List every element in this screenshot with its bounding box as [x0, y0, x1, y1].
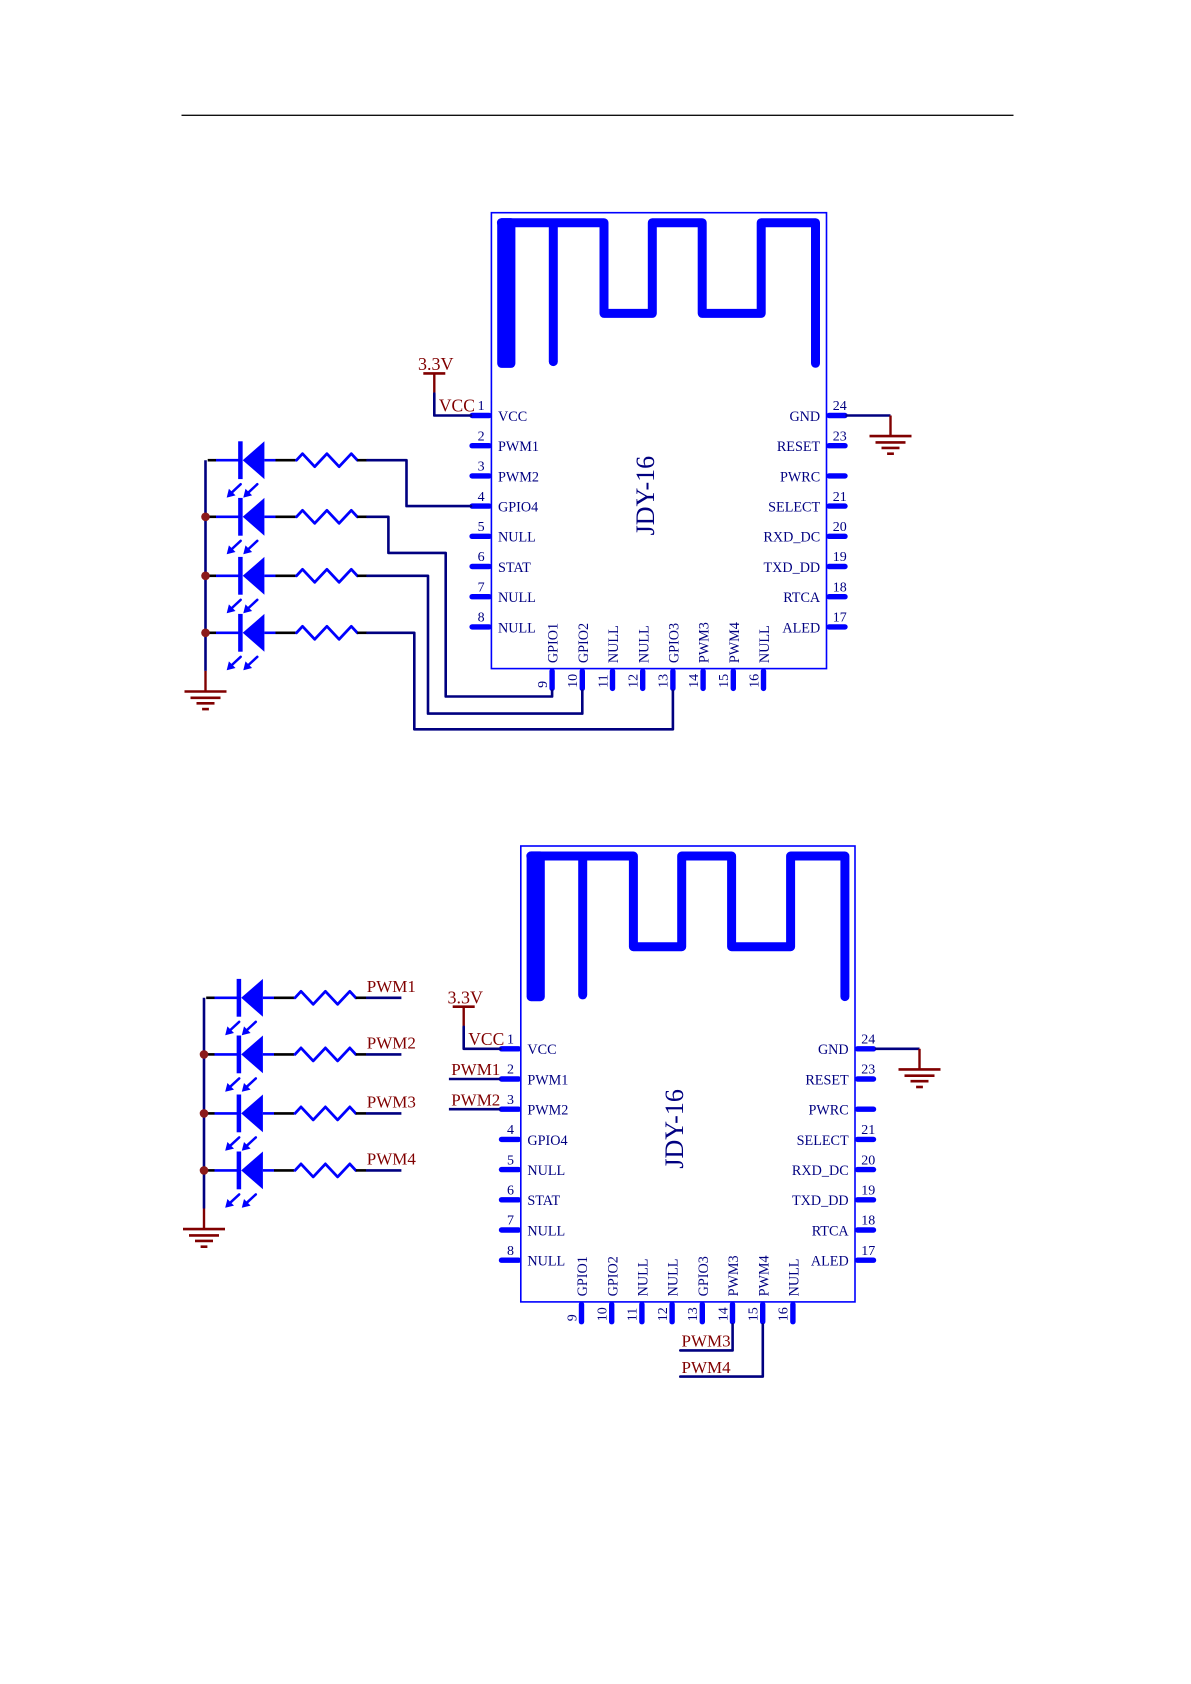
svg-text:TXD_DD: TXD_DD: [792, 1193, 849, 1209]
svg-text:1: 1: [507, 1033, 514, 1048]
U1 pin 10 (GPIO2): [566, 623, 592, 689]
U1 pin 2 (PWM1): [472, 429, 539, 455]
resistor R6: [295, 1048, 366, 1061]
svg-text:PWM4: PWM4: [367, 1149, 417, 1168]
U2 pin 5 (NULL): [502, 1153, 566, 1179]
resistor R4: [297, 626, 368, 639]
U2 pin 8 (NULL): [502, 1244, 566, 1270]
svg-text:15: 15: [747, 1307, 762, 1321]
svg-text:VCC: VCC: [439, 396, 475, 416]
power 3.3V (bottom): [447, 988, 483, 1028]
module U2 name JDY-16: [660, 1089, 689, 1168]
svg-text:NULL: NULL: [666, 1259, 682, 1297]
wire 3.3V to U2 pin 1: [464, 1027, 501, 1049]
junction dot: [201, 629, 210, 638]
U1 pin 12 (NULL): [627, 625, 653, 688]
svg-text:NULL: NULL: [606, 625, 622, 663]
svg-text:PWM3: PWM3: [697, 622, 713, 663]
wire U1 pin 24 to ground: [846, 414, 891, 417]
module U2 body: [521, 846, 855, 1302]
U2 pin 19 (TXD_DD): [792, 1184, 875, 1210]
wire net PWM2 to U2 pin 3: [449, 1108, 501, 1111]
wire R3 to U1 pin 10 (GPIO2): [368, 576, 583, 714]
resistor R7: [295, 1107, 366, 1120]
net label PWM4: [367, 1149, 417, 1168]
wire U2 pin 14 to net PWM3: [680, 1324, 732, 1350]
wire R2 to U1 pin 9 (GPIO1): [368, 517, 553, 697]
U1 pin 24 (GND): [789, 399, 846, 425]
svg-text:RESET: RESET: [805, 1072, 849, 1088]
U1 pin 6 (STAT): [472, 550, 531, 576]
U2 pin 9 (GPIO1): [565, 1256, 591, 1322]
resistor R8: [295, 1164, 366, 1177]
svg-text:20: 20: [833, 520, 847, 535]
junction dot: [200, 1109, 209, 1118]
U1 pin 7 (NULL): [472, 580, 536, 606]
svg-text:NULL: NULL: [757, 625, 773, 663]
svg-text:VCC: VCC: [468, 1029, 504, 1049]
LED D8: [206, 1152, 294, 1208]
svg-text:23: 23: [861, 1063, 875, 1078]
U1 pin 17 (ALED): [782, 611, 846, 637]
U1 pin 15 (PWM4): [717, 622, 743, 688]
svg-text:14: 14: [687, 674, 702, 688]
ground (LED rail, top): [185, 671, 227, 709]
svg-text:5: 5: [507, 1153, 514, 1168]
svg-text:19: 19: [861, 1184, 875, 1199]
svg-text:16: 16: [747, 674, 762, 688]
svg-text:GPIO3: GPIO3: [696, 1256, 712, 1296]
svg-text:RXD_DC: RXD_DC: [763, 530, 820, 546]
wire 3.3V to U1 pin 1: [434, 394, 471, 416]
svg-text:10: 10: [596, 1307, 611, 1321]
svg-text:9: 9: [565, 1314, 580, 1321]
net label PWM1 (pin2): [451, 1060, 500, 1079]
U1 pin 1 (VCC): [472, 399, 527, 425]
svg-text:23: 23: [833, 429, 847, 444]
svg-text:GND: GND: [818, 1042, 849, 1058]
resistor R5: [295, 991, 366, 1004]
svg-text:NULL: NULL: [498, 620, 536, 636]
svg-text:6: 6: [478, 550, 485, 565]
svg-text:24: 24: [861, 1033, 875, 1048]
module U2 antenna: [527, 851, 845, 1001]
svg-text:8: 8: [507, 1244, 514, 1259]
svg-text:NULL: NULL: [787, 1259, 803, 1297]
U1 pin 14 (PWM3): [687, 622, 713, 688]
svg-text:7: 7: [507, 1214, 514, 1229]
svg-text:2: 2: [478, 429, 485, 444]
svg-text:12: 12: [627, 674, 642, 688]
svg-text:GPIO1: GPIO1: [546, 623, 562, 663]
U2 pin 17 (ALED): [811, 1244, 875, 1270]
U1 pin 16 (NULL): [747, 625, 773, 688]
LED D2: [208, 498, 296, 554]
svg-text:JDY-16: JDY-16: [660, 1089, 689, 1168]
svg-text:NULL: NULL: [527, 1163, 565, 1179]
resistor R3: [297, 569, 368, 582]
net label PWM2: [367, 1033, 416, 1052]
U2 pin 11 (NULL): [626, 1259, 652, 1322]
U2 pin 16 (NULL): [777, 1259, 803, 1322]
svg-text:14: 14: [716, 1307, 731, 1321]
svg-text:3: 3: [478, 460, 485, 475]
svg-text:ALED: ALED: [811, 1254, 849, 1270]
LED D3: [208, 557, 296, 613]
svg-text:GPIO4: GPIO4: [498, 500, 538, 516]
svg-text:PWM2: PWM2: [498, 469, 539, 485]
LED D7: [206, 1095, 294, 1151]
svg-text:PWM1: PWM1: [367, 977, 416, 996]
svg-text:PWRC: PWRC: [780, 469, 820, 485]
svg-text:20: 20: [861, 1153, 875, 1168]
svg-text:19: 19: [833, 550, 847, 565]
U2 pin 6 (STAT): [502, 1184, 561, 1210]
svg-text:6: 6: [507, 1184, 514, 1199]
net label PWM4 (pin15): [682, 1358, 732, 1377]
wire net PWM1 to U2 pin 2: [449, 1078, 501, 1081]
svg-text:3: 3: [507, 1093, 514, 1108]
U1 pin 19 (TXD_DD): [763, 550, 846, 576]
svg-text:SELECT: SELECT: [768, 500, 820, 516]
svg-text:4: 4: [478, 490, 485, 505]
svg-text:11: 11: [626, 1308, 641, 1321]
U2 pin 24 (GND): [818, 1033, 875, 1059]
ground (U2 GND, bottom): [899, 1049, 941, 1087]
U2 pin 14 (PWM3): [716, 1255, 742, 1321]
svg-text:GPIO3: GPIO3: [667, 623, 683, 663]
svg-text:4: 4: [507, 1123, 514, 1138]
U1 pin 23 (RESET): [777, 429, 847, 455]
svg-text:10: 10: [566, 674, 581, 688]
U1 pin 11 (NULL): [596, 625, 622, 688]
LED D6: [206, 1036, 294, 1092]
net label PWM1: [367, 977, 416, 996]
U2 pin 15 (PWM4): [747, 1255, 773, 1321]
svg-text:21: 21: [833, 490, 847, 505]
svg-text:3.3V: 3.3V: [418, 354, 454, 374]
U1 pin 8 (NULL): [472, 611, 536, 637]
svg-text:NULL: NULL: [527, 1223, 565, 1239]
wire stub net PWM2: [366, 1053, 401, 1056]
svg-text:TXD_DD: TXD_DD: [763, 560, 820, 576]
svg-text:3.3V: 3.3V: [447, 988, 483, 1008]
U2 pin 10 (GPIO2): [596, 1256, 622, 1322]
U1 pin 22 (PWRC): [780, 469, 845, 485]
svg-text:9: 9: [536, 681, 551, 688]
U2 pin 1 (VCC): [502, 1033, 557, 1059]
LED D1: [208, 441, 296, 497]
U2 pin 22 (PWRC): [808, 1103, 873, 1119]
U1 pin 5 (NULL): [472, 520, 536, 546]
junction dot: [200, 1050, 209, 1059]
net label VCC (top): [439, 396, 475, 416]
svg-text:GPIO1: GPIO1: [575, 1256, 591, 1296]
svg-text:PWM4: PWM4: [756, 1255, 772, 1296]
net label PWM2 (pin3): [451, 1090, 500, 1109]
wire U2 pin 24 to ground: [875, 1048, 920, 1051]
U1 pin 4 (GPIO4): [472, 490, 538, 516]
svg-text:VCC: VCC: [498, 409, 527, 425]
svg-text:PWM1: PWM1: [498, 439, 539, 455]
U1 pin 3 (PWM2): [472, 460, 539, 486]
LED D5: [206, 979, 294, 1035]
svg-text:PWM1: PWM1: [451, 1060, 500, 1079]
U1 pin 21 (SELECT): [768, 490, 847, 516]
svg-text:RXD_DC: RXD_DC: [792, 1163, 849, 1179]
wire stub net PWM3: [366, 1112, 401, 1115]
U2 pin 23 (RESET): [805, 1063, 875, 1089]
svg-text:PWM2: PWM2: [367, 1033, 416, 1052]
svg-text:2: 2: [507, 1063, 514, 1078]
ground (U1 GND, top): [870, 416, 912, 454]
svg-text:17: 17: [833, 611, 847, 626]
svg-text:SELECT: SELECT: [797, 1133, 849, 1149]
ground (LED rail, bottom): [183, 1209, 225, 1247]
svg-text:PWM2: PWM2: [451, 1090, 500, 1109]
svg-text:NULL: NULL: [636, 1259, 652, 1297]
wire U2 pin 15 to net PWM4: [680, 1324, 763, 1376]
svg-text:8: 8: [478, 611, 485, 626]
junction dot: [200, 1166, 209, 1175]
svg-text:21: 21: [861, 1123, 875, 1138]
U1 pin 13 (GPIO3): [657, 623, 683, 689]
svg-text:GPIO2: GPIO2: [605, 1256, 621, 1296]
wire R4 to U1 pin 13 (GPIO3): [368, 633, 673, 730]
svg-text:RTCA: RTCA: [812, 1223, 850, 1239]
svg-text:VCC: VCC: [527, 1042, 556, 1058]
U2 pin 20 (RXD_DC): [792, 1153, 875, 1179]
svg-text:PWRC: PWRC: [808, 1103, 848, 1119]
svg-text:1: 1: [478, 399, 485, 414]
svg-text:13: 13: [686, 1307, 701, 1321]
svg-text:PWM1: PWM1: [527, 1072, 568, 1088]
page rule: [182, 114, 1014, 116]
LED D4: [208, 614, 296, 670]
net label PWM3: [367, 1092, 416, 1111]
power 3.3V (top): [418, 354, 454, 394]
svg-text:12: 12: [656, 1307, 671, 1321]
svg-text:PWM3: PWM3: [726, 1255, 742, 1296]
svg-text:PWM3: PWM3: [367, 1092, 416, 1111]
svg-text:5: 5: [478, 520, 485, 535]
svg-text:NULL: NULL: [636, 625, 652, 663]
wire stub net PWM1: [366, 996, 401, 999]
U2 pin 12 (NULL): [656, 1259, 682, 1322]
wire LED cathode rail (bottom): [203, 998, 206, 1209]
svg-text:GPIO4: GPIO4: [527, 1133, 567, 1149]
svg-text:STAT: STAT: [527, 1193, 560, 1209]
svg-text:7: 7: [478, 580, 485, 595]
svg-text:17: 17: [861, 1244, 875, 1259]
svg-text:NULL: NULL: [498, 530, 536, 546]
svg-text:18: 18: [833, 580, 847, 595]
svg-text:RESET: RESET: [777, 439, 821, 455]
svg-text:NULL: NULL: [527, 1254, 565, 1270]
svg-text:PWM4: PWM4: [682, 1358, 732, 1377]
svg-text:ALED: ALED: [782, 620, 820, 636]
svg-text:RTCA: RTCA: [783, 590, 821, 606]
svg-text:STAT: STAT: [498, 560, 531, 576]
resistor R2: [297, 510, 368, 523]
svg-text:24: 24: [833, 399, 847, 414]
svg-text:18: 18: [861, 1214, 875, 1229]
svg-text:PWM3: PWM3: [682, 1332, 731, 1351]
svg-text:13: 13: [657, 674, 672, 688]
U1 pin 20 (RXD_DC): [763, 520, 846, 546]
svg-text:PWM4: PWM4: [727, 622, 743, 663]
svg-text:GPIO2: GPIO2: [576, 623, 592, 663]
module U1 body: [491, 213, 826, 669]
net label PWM3 (pin14): [682, 1332, 731, 1351]
svg-text:JDY-16: JDY-16: [631, 456, 660, 535]
wire stub net PWM4: [366, 1169, 401, 1172]
svg-text:GND: GND: [789, 409, 820, 425]
wire R1 to U1 pin 4 (GPIO4): [368, 460, 472, 506]
svg-text:16: 16: [777, 1307, 792, 1321]
module U1 antenna: [497, 218, 815, 368]
svg-text:NULL: NULL: [498, 590, 536, 606]
svg-text:15: 15: [717, 674, 732, 688]
U2 pin 2 (PWM1): [502, 1063, 569, 1089]
U1 pin 18 (RTCA): [783, 580, 847, 606]
module U1 name JDY-16: [631, 456, 660, 535]
wire LED cathode rail (top): [204, 460, 207, 671]
U2 pin 3 (PWM2): [502, 1093, 569, 1119]
svg-text:11: 11: [596, 674, 611, 687]
svg-text:PWM2: PWM2: [527, 1103, 568, 1119]
U1 pin 9 (GPIO1): [536, 623, 562, 689]
net label VCC (bottom): [468, 1029, 504, 1049]
U2 pin 21 (SELECT): [797, 1123, 876, 1149]
U2 pin 18 (RTCA): [812, 1214, 876, 1240]
U2 pin 7 (NULL): [502, 1214, 566, 1240]
resistor R1: [297, 454, 368, 467]
junction dot: [201, 572, 210, 581]
junction dot: [201, 513, 210, 522]
U2 pin 4 (GPIO4): [502, 1123, 568, 1149]
U2 pin 13 (GPIO3): [686, 1256, 712, 1322]
